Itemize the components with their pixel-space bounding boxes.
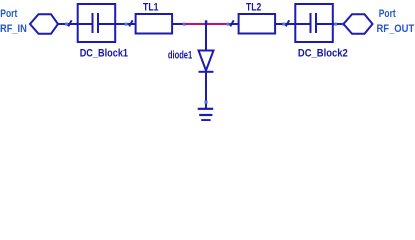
svg-text:RF_OUT: RF_OUT [377, 23, 415, 35]
svg-text:TL1: TL1 [143, 2, 159, 14]
capacitor DC_Block2 left plate [310, 13, 312, 33]
pin tick at TL2 pin 1 [230, 20, 233, 26]
wire DC_Block1 to TL1 [115, 23, 135, 25]
wire junction down to diode1 [205, 20, 207, 50]
wire DC_Block2 to port P2 [333, 23, 344, 25]
pin tick at DC_Block2 pin 1 [286, 20, 289, 26]
node dot at TL2 pin 2 [282, 23, 285, 26]
svg-text:diode1: diode1 [168, 50, 192, 62]
wire TL2 to DC_Block2 [275, 23, 295, 25]
wire TL1 to node (blue stub) [172, 23, 185, 25]
junction node at diode tap [205, 20, 208, 24]
node dot before TL1 [125, 23, 128, 26]
node dot at P1 pin end [65, 23, 68, 26]
port P2 hexagon symbol [344, 14, 373, 34]
diode diode1 triangle (anode) [199, 51, 214, 71]
node dot before TL2 [227, 23, 230, 26]
wire to TL2 [230, 23, 239, 25]
port P1 hexagon symbol [30, 14, 58, 34]
capacitor DC_Block1 box [78, 4, 116, 42]
ground bar 3 [201, 119, 210, 121]
svg-text:Port: Port [379, 8, 396, 20]
wire highlighted net (magenta) [185, 23, 227, 25]
node dot at P2 pin [342, 23, 345, 26]
wire hexagon P1 to DC_Block1 [58, 23, 78, 25]
svg-text:Port: Port [0, 8, 17, 20]
capacitor DC_Block1 right lead [98, 23, 115, 25]
svg-text:TL2: TL2 [246, 2, 261, 14]
node dot at DC_Block2 pin 2 [334, 23, 337, 26]
capacitor DC_Block1 left plate [92, 13, 94, 33]
transmission line TL2 box [239, 14, 276, 34]
capacitor DC_Block2 left lead [295, 23, 310, 25]
capacitor DC_Block2 right lead [316, 23, 333, 25]
ground bar 1 [198, 108, 214, 110]
capacitor DC_Block1 left lead [78, 23, 93, 25]
pin tick at DC_Block1 pin 1 [68, 20, 71, 26]
wire diode1 to ground [205, 72, 207, 109]
ground bar 2 [199, 114, 212, 116]
pin tick at TL1 pin 1 [129, 20, 132, 26]
svg-text:RF_IN: RF_IN [0, 23, 27, 35]
capacitor DC_Block2 box [295, 4, 333, 42]
node dot at TL1 pin 2 [183, 23, 186, 26]
transmission line TL1 box [136, 14, 173, 34]
diode diode1 cathode bar [199, 71, 214, 73]
svg-text:DC_Block1: DC_Block1 [80, 47, 128, 59]
capacitor DC_Block1 right plate [97, 13, 99, 33]
svg-text:DC_Block2: DC_Block2 [298, 47, 348, 59]
capacitor DC_Block2 right plate [315, 13, 317, 33]
node dot above ground [204, 101, 207, 104]
